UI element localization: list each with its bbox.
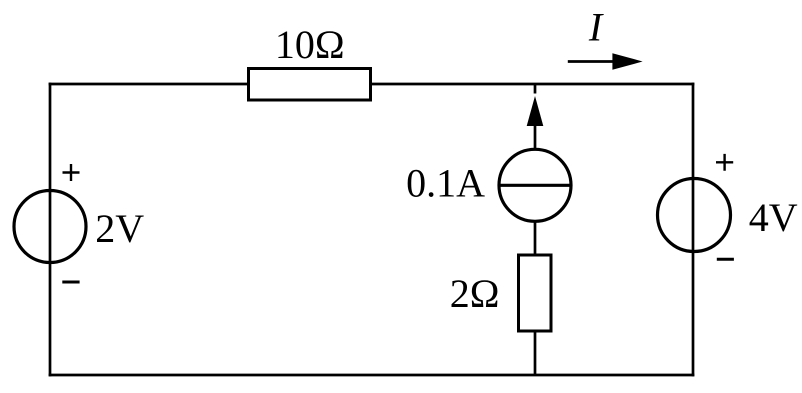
wire resistor 2ohm to bottom [534, 331, 537, 375]
voltage source 2V circle [14, 191, 86, 263]
wire current source arrow shaft [534, 124, 537, 150]
current source arrow head [527, 96, 544, 126]
current direction arrow I head [612, 53, 642, 70]
svg-text:2V: 2V [95, 206, 144, 251]
voltage source value label 2V [95, 206, 144, 251]
voltage source 2V plus polarity [63, 164, 80, 181]
wire bottom [50, 374, 693, 377]
svg-text:4V: 4V [749, 195, 798, 240]
wire top [50, 83, 693, 86]
current label I [588, 5, 604, 50]
voltage source 4V minus polarity [717, 258, 734, 261]
node stub at top of middle branch [534, 84, 537, 94]
voltage source value label 4V [749, 195, 798, 240]
wire current source to resistor 2ohm [534, 221, 537, 256]
svg-text:10Ω: 10Ω [275, 22, 345, 67]
voltage source 2V minus polarity [62, 281, 79, 284]
svg-text:I: I [588, 5, 604, 50]
voltage source 4V circle [658, 179, 731, 252]
current source 0.1A circle [499, 149, 571, 221]
wire right [692, 84, 695, 375]
svg-text:2Ω: 2Ω [450, 271, 500, 316]
resistor 2ohm value label [450, 271, 500, 316]
resistor 10ohm body [249, 69, 371, 101]
current source 0.1A bar [499, 184, 571, 187]
resistor 10ohm value label [275, 22, 345, 67]
voltage source 4V plus polarity [716, 154, 733, 171]
resistor 2ohm body [519, 255, 552, 331]
svg-text:0.1A: 0.1A [406, 161, 485, 206]
current direction arrow I shaft [568, 60, 616, 63]
wire left [49, 84, 52, 375]
current source value label 0.1A [406, 161, 485, 206]
